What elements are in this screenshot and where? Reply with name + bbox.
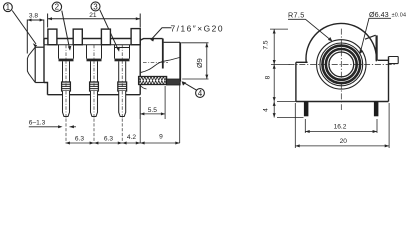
svg-text:4: 4 bbox=[263, 108, 270, 112]
lug 2 bbox=[73, 29, 82, 45]
centerline pin 3 bbox=[121, 45, 123, 119]
mounting peg right bbox=[374, 102, 379, 117]
centerline pin 2 bbox=[93, 45, 95, 119]
end block bbox=[131, 29, 140, 45]
dimension 5.5 bbox=[140, 86, 165, 119]
horizontal centerline bbox=[289, 63, 397, 65]
svg-text:Ø6.43: Ø6.43 bbox=[369, 10, 389, 19]
svg-text:±0.04: ±0.04 bbox=[392, 12, 407, 18]
bushing rings bbox=[317, 40, 366, 89]
svg-text:6–1.3: 6–1.3 bbox=[29, 119, 46, 126]
callout 2 bbox=[52, 2, 61, 12]
svg-text:9: 9 bbox=[159, 133, 163, 140]
dimension 20 bbox=[295, 103, 389, 148]
svg-text:3.8: 3.8 bbox=[29, 13, 38, 20]
dimension 3.8 bbox=[27, 13, 44, 54]
svg-text:6.3: 6.3 bbox=[75, 135, 84, 142]
svg-text:7.5: 7.5 bbox=[263, 40, 270, 49]
svg-text:5.5: 5.5 bbox=[148, 107, 157, 114]
svg-text:1: 1 bbox=[6, 3, 11, 12]
knurled nut bbox=[139, 77, 167, 90]
right tab bbox=[389, 57, 399, 64]
svg-text:21: 21 bbox=[89, 12, 97, 19]
pin 3 bbox=[119, 91, 126, 117]
vertical centerline bbox=[340, 29, 342, 110]
right shoulder bbox=[378, 59, 389, 61]
clip bbox=[365, 35, 377, 60]
svg-text:2: 2 bbox=[55, 3, 60, 12]
svg-text:16.2: 16.2 bbox=[334, 123, 347, 130]
section break curve bbox=[141, 58, 180, 73]
lug 3 bbox=[101, 29, 110, 45]
contact channel 2 bbox=[91, 61, 98, 82]
body outline bbox=[44, 39, 140, 95]
svg-text:3: 3 bbox=[93, 2, 98, 11]
leader 3 bbox=[100, 10, 119, 50]
contact channel 1 bbox=[63, 61, 70, 82]
callout 1 bbox=[4, 3, 13, 12]
centerline pin 1 bbox=[65, 45, 67, 119]
svg-text:6.3: 6.3 bbox=[104, 135, 113, 142]
label dia 6.43 bbox=[359, 10, 406, 54]
leader 4 bbox=[182, 81, 197, 90]
label 7/16 x G20 bbox=[150, 24, 224, 42]
cap (back cover) bbox=[27, 47, 44, 82]
pin 2 bbox=[91, 91, 98, 117]
svg-text:4.2: 4.2 bbox=[127, 134, 136, 141]
dimension 6-1.3 bbox=[29, 119, 76, 128]
slot 3 bbox=[115, 45, 130, 62]
svg-text:7/16″×G20: 7/16″×G20 bbox=[171, 24, 225, 34]
slot 1 bbox=[59, 45, 74, 62]
dimension 21 bbox=[48, 12, 141, 27]
lug 1 bbox=[48, 29, 57, 45]
svg-text:8: 8 bbox=[265, 75, 272, 79]
knurl 3 bbox=[118, 82, 127, 91]
front body bbox=[296, 57, 389, 102]
label R7.5 bbox=[288, 11, 332, 42]
leader 1 bbox=[12, 11, 37, 48]
left shoulder bbox=[296, 61, 308, 63]
dimension 16.2 bbox=[305, 119, 377, 133]
knurl 1 bbox=[62, 82, 71, 91]
left dimension stack 7.5 / 8 / 4 bbox=[263, 29, 304, 117]
front view dome bbox=[306, 23, 376, 62]
knurl 2 bbox=[90, 82, 99, 91]
callout 4 bbox=[196, 89, 205, 98]
body inner top line bbox=[44, 44, 140, 46]
pin 1 bbox=[63, 91, 70, 117]
slot 2 bbox=[87, 45, 102, 62]
svg-text:Ø9: Ø9 bbox=[195, 58, 204, 68]
bottom dimension chain 6.3 / 6.3 / 4.2 / 9 bbox=[66, 83, 180, 145]
leader 2 bbox=[62, 11, 70, 49]
svg-text:R7.5: R7.5 bbox=[288, 11, 305, 20]
bushing centerline bbox=[143, 61, 168, 63]
svg-text:20: 20 bbox=[340, 138, 348, 145]
washer bbox=[167, 79, 181, 85]
svg-text:4: 4 bbox=[198, 89, 203, 98]
mounting peg left bbox=[304, 102, 309, 117]
threaded bushing bbox=[140, 39, 180, 82]
dimension dia 9 bbox=[181, 43, 208, 79]
contact channel 3 bbox=[119, 61, 126, 82]
callout 3 bbox=[91, 2, 100, 11]
